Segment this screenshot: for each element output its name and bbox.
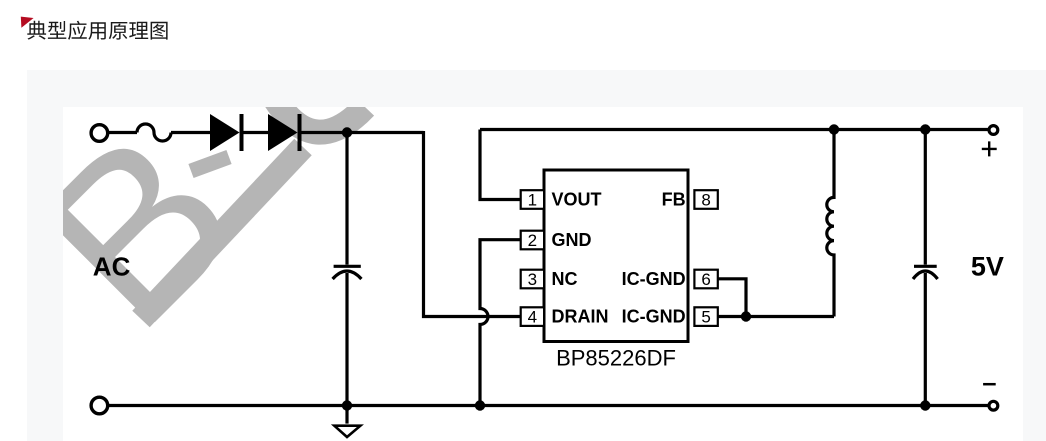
pin box 4 (521, 307, 544, 326)
wire top rail left (108, 131, 137, 134)
pin box 1 (521, 190, 544, 209)
junction C2 top (920, 124, 930, 134)
svg-text:BP85226DF: BP85226DF (556, 346, 676, 371)
watermark stroke fragment (191, 157, 229, 171)
junction node A (rectifier output) (342, 127, 352, 137)
capacitor C1 lead top (345, 133, 348, 265)
pin box 6 (694, 270, 717, 289)
junction pin5/pin6 (741, 311, 751, 321)
ground stub (345, 406, 348, 424)
fuse F1 (137, 124, 171, 141)
pin box 3 (521, 270, 544, 289)
minus sign (983, 383, 996, 386)
svg-text:IC-GND: IC-GND (622, 307, 686, 327)
svg-text:1: 1 (528, 191, 537, 210)
svg-text:NC: NC (552, 269, 578, 289)
svg-text:3: 3 (528, 270, 537, 289)
top right rail VOUT to +5V terminal (480, 128, 989, 131)
svg-text:B: B (63, 107, 282, 373)
svg-text:4: 4 (528, 308, 537, 327)
wire VOUT pin1 loop up (480, 130, 521, 200)
svg-text:8: 8 (701, 191, 710, 210)
title text 典型应用原理图 (24, 0, 179, 46)
svg-text:VOUT: VOUT (552, 190, 602, 210)
wire D2 to node A (302, 131, 424, 134)
svg-text:5V: 5V (971, 252, 1004, 282)
wire GND pin2 down with hop over drain wire (480, 240, 521, 406)
title marker (red corner triangle) (20, 16, 35, 29)
inductor L1 (827, 130, 834, 317)
watermark letter P bowl (275, 99, 365, 132)
capacitor C1 top plate (334, 265, 361, 268)
wire node A down to DRAIN row (424, 131, 521, 317)
wire IC-GND pin5 to inductor bottom (717, 315, 834, 318)
junction pin2 gnd bottom (475, 400, 485, 410)
svg-text:5: 5 (701, 308, 710, 327)
diode D2 (268, 114, 302, 151)
capacitor C1 curved plate (333, 271, 362, 279)
input terminal top-left (91, 125, 108, 142)
white schematic image area (63, 107, 1023, 441)
diode D1 (210, 114, 244, 151)
output terminal top-right (989, 126, 998, 135)
svg-text:6: 6 (701, 270, 710, 289)
capacitor C2 lead bottom (924, 273, 927, 406)
capacitor C2 top plate (914, 265, 937, 268)
pin box 5 (694, 307, 717, 326)
svg-text:FB: FB (662, 190, 686, 210)
watermark letter B (0, 82, 282, 372)
capacitor C2 curved plate (913, 271, 938, 279)
junction inductor top (829, 124, 839, 134)
wire fuse to D1 (171, 131, 210, 134)
svg-text:2: 2 (528, 231, 537, 250)
bottom rail (108, 404, 989, 407)
capacitor C2 lead top (924, 130, 927, 265)
svg-text:AC: AC (93, 252, 131, 282)
watermark letter P stem (141, 147, 303, 319)
svg-text:GND: GND (552, 230, 592, 250)
plus sign (982, 141, 997, 156)
pin box 2 (521, 231, 544, 250)
capacitor C1 lead bottom (345, 273, 348, 406)
output terminal bottom-right (989, 401, 998, 410)
svg-text:IC-GND: IC-GND (622, 269, 686, 289)
pin box 8 (694, 190, 717, 209)
schematic drawing (63, 107, 1023, 441)
wire IC-GND pin6 over to pin5 net (717, 279, 746, 317)
input terminal bottom-left (91, 397, 108, 414)
junction C2 bottom (920, 400, 930, 410)
svg-text:DRAIN: DRAIN (552, 307, 609, 327)
ground symbol (334, 426, 360, 437)
junction C1 bottom (342, 400, 352, 410)
wire D1 to D2 (244, 131, 269, 134)
IC U1 BP85226DF body (544, 170, 688, 342)
